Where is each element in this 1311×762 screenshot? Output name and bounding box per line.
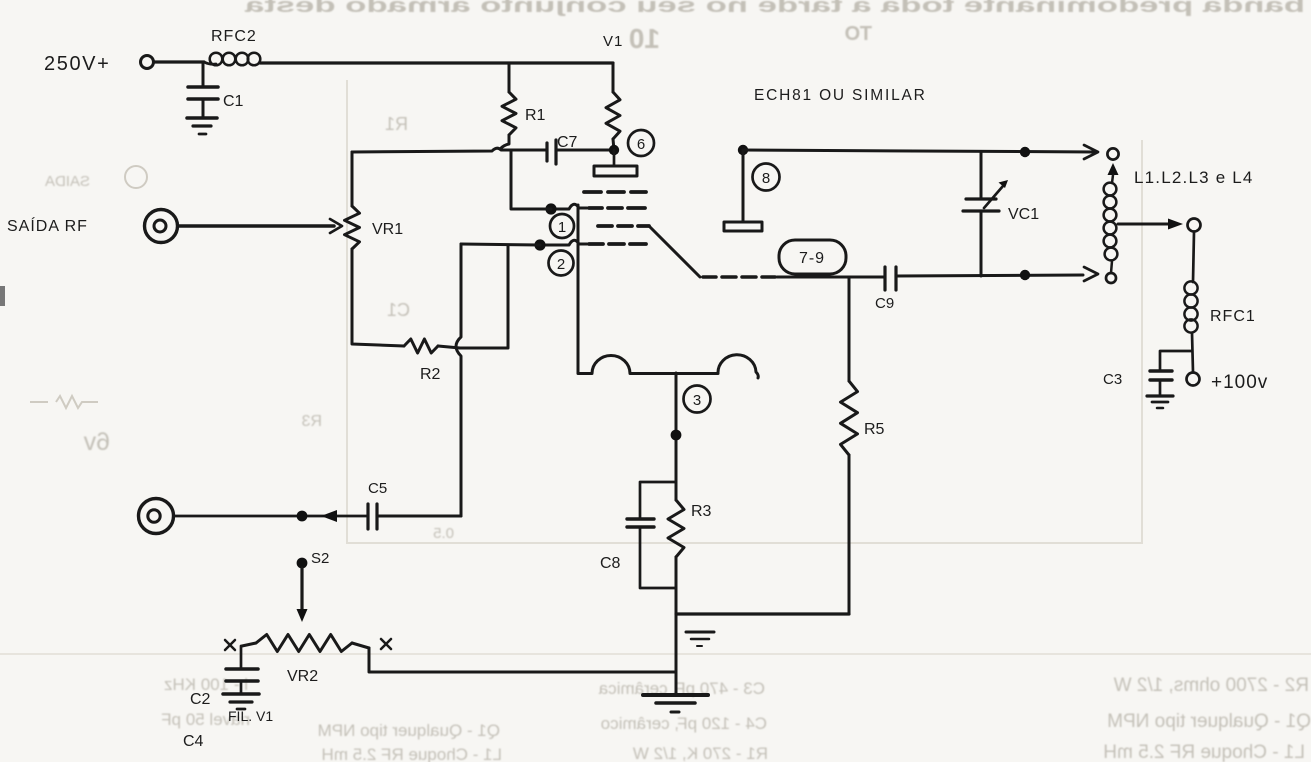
wire terminal to C5 xyxy=(174,515,368,518)
svg-text:R1: R1 xyxy=(525,107,546,124)
svg-text:S2: S2 xyxy=(311,550,329,567)
svg-text:C4: C4 xyxy=(183,733,204,750)
svg-text:R3: R3 xyxy=(691,503,712,520)
svg-text:R1: R1 xyxy=(385,114,408,134)
wire 250V+ to C1 node xyxy=(154,60,204,63)
ground C1 xyxy=(187,118,217,134)
svg-text:banda predominante toda a tard: banda predominante toda a tarde no seu c… xyxy=(243,0,1305,17)
svg-text:+100v: +100v xyxy=(1211,372,1268,393)
ground C2 (FIL. V1) xyxy=(223,694,259,709)
wire VR1 top xyxy=(351,152,354,206)
tube V1 grid g1 (dashed) xyxy=(589,242,646,246)
wire VR1 top bus to C7 xyxy=(352,148,546,152)
tube V1 triode anode node xyxy=(738,145,748,155)
svg-text:3: 3 xyxy=(693,392,701,409)
wire cathode down xyxy=(675,373,678,500)
svg-text:C7: C7 xyxy=(557,134,578,151)
svg-text:TO: TO xyxy=(845,23,872,45)
arrow into VR1 xyxy=(330,219,342,233)
pin label 6 xyxy=(628,130,654,156)
ground C3 xyxy=(1147,396,1173,408)
wire 7-9 line to C9 xyxy=(777,276,885,279)
tube V1 triode grid diagonal lead xyxy=(649,226,700,277)
capacitor C1 xyxy=(188,62,244,117)
x mark left xyxy=(225,640,235,650)
wire C9 to lower output arrow xyxy=(896,275,1083,276)
pin label 3 xyxy=(684,386,711,413)
wire VR1 bottom to R2 xyxy=(352,249,404,346)
svg-text:C8: C8 xyxy=(600,555,621,572)
svg-text:C9: C9 xyxy=(875,295,894,312)
resistor R3 xyxy=(668,500,712,557)
svg-text:R5: R5 xyxy=(864,421,885,438)
capacitor C2 xyxy=(190,646,258,708)
svg-text:R2: R2 xyxy=(420,366,441,383)
svg-text:ECH81 OU SIMILAR: ECH81 OU SIMILAR xyxy=(754,87,927,104)
svg-text:L1 - Choque RF 2.5 mH: L1 - Choque RF 2.5 mH xyxy=(322,745,502,762)
resistor R1 xyxy=(502,92,546,135)
svg-text:V1: V1 xyxy=(603,33,623,50)
wire R3 node to R5 bottom xyxy=(676,612,849,615)
svg-text:SAIDA: SAIDA xyxy=(45,173,90,190)
wire C7 to node 6 xyxy=(556,149,614,152)
svg-text:RFC1: RFC1 xyxy=(1210,308,1256,325)
svg-text:R1 - 270 K, 1/2 W: R1 - 270 K, 1/2 W xyxy=(633,744,768,762)
junction node 2 xyxy=(534,239,545,250)
junction node 1 xyxy=(545,203,556,214)
svg-text:7-9: 7-9 xyxy=(799,250,825,267)
svg-text:C1: C1 xyxy=(387,300,410,320)
svg-text:VC1: VC1 xyxy=(1008,206,1039,223)
inductor L1-L4 xyxy=(1104,175,1118,273)
wire anode resistor to node 6 xyxy=(613,139,614,150)
wire R3 bottom down to ground xyxy=(675,557,678,695)
pin label 2 xyxy=(549,251,574,276)
svg-text:0.5: 0.5 xyxy=(433,525,454,542)
potentiometer VR2 xyxy=(242,635,369,686)
svg-text:Q1 - Qualquer tipo NPM: Q1 - Qualquer tipo NPM xyxy=(318,721,500,740)
terminal SAIDA RF xyxy=(145,210,178,243)
capacitor C3 xyxy=(1103,351,1192,395)
terminal coil bottom xyxy=(1106,273,1116,283)
svg-text:2: 2 xyxy=(557,256,565,273)
tube V1 hexode anode plate xyxy=(594,150,637,176)
svg-text:VR2: VR2 xyxy=(287,668,318,685)
svg-text:R3: R3 xyxy=(301,413,322,430)
svg-text:L1 - Choque RF 2.5 mH: L1 - Choque RF 2.5 mH xyxy=(1103,742,1305,762)
potentiometer VR1 xyxy=(345,206,404,249)
wire node2 horizontal xyxy=(461,244,540,245)
wire coil tap xyxy=(1118,223,1170,226)
wire R1 top branch xyxy=(508,63,511,92)
wire triode anode to VC1/L xyxy=(743,150,1097,152)
arrow toward junction xyxy=(321,510,337,522)
wire node2 lead with hop xyxy=(540,240,587,245)
svg-text:FIL. V1: FIL. V1 xyxy=(228,708,273,724)
svg-text:1: 1 xyxy=(558,219,566,236)
svg-text:RFC2: RFC2 xyxy=(211,28,257,45)
wire SAIDA RF to VR1 xyxy=(178,224,334,228)
resistor (anode, unlabeled) xyxy=(606,92,620,139)
svg-text:C3: C3 xyxy=(1103,371,1122,388)
svg-text:250V+: 250V+ xyxy=(44,53,110,75)
svg-text:C2: C2 xyxy=(190,691,211,708)
tube V1 grid g4 (dashed) xyxy=(584,190,646,194)
terminal coil top xyxy=(1107,148,1118,159)
ground mid (small) xyxy=(686,632,714,646)
junction cathode xyxy=(671,430,682,441)
svg-text:Q1 - Qualquer tipo NPM: Q1 - Qualquer tipo NPM xyxy=(1107,711,1311,732)
terminal lower input xyxy=(139,499,174,534)
tube V1 cathode (wavy) xyxy=(578,355,758,378)
wire R2 to grid-2 riser xyxy=(438,245,508,348)
wire top bus RFC2 to V1 xyxy=(260,61,613,64)
pin label 8 xyxy=(753,164,780,191)
terminal +100v xyxy=(1187,372,1269,393)
arrow lower output xyxy=(1084,267,1098,281)
svg-text:C4 - 120 pF, cerâmico: C4 - 120 pF, cerâmico xyxy=(601,714,767,733)
inductor RFC2 xyxy=(204,28,260,65)
terminal tap xyxy=(1188,219,1201,232)
arrow upper output xyxy=(1084,145,1098,159)
junction node 6 xyxy=(609,145,619,155)
wire RFC1 to +100v xyxy=(1192,333,1193,372)
tube V1 grid g2 (dashed) xyxy=(598,224,649,228)
tube V1 triode anode plate xyxy=(724,150,762,231)
tube V1 grid g3 (dashed) xyxy=(589,206,645,210)
arrow coil top (up) xyxy=(1108,163,1119,175)
wire VR2 right to ground bus xyxy=(369,648,676,672)
capacitor C9 xyxy=(875,267,896,312)
wire tap to RFC1 xyxy=(1193,232,1194,282)
svg-text:8: 8 xyxy=(762,170,770,187)
wire V1 anode drop xyxy=(612,63,615,92)
capacitor C8 xyxy=(600,482,676,588)
arrow S2 down xyxy=(297,568,308,622)
resistor R5 xyxy=(841,277,885,614)
junction lower output xyxy=(1020,270,1030,280)
svg-text:10: 10 xyxy=(629,23,660,54)
svg-text:C5: C5 xyxy=(368,480,387,497)
wire R1 bottom to bus xyxy=(500,135,509,149)
inductor RFC1 xyxy=(1184,281,1255,332)
pin label 1 xyxy=(550,214,574,238)
svg-text:L1.L2.L3 e L4: L1.L2.L3 e L4 xyxy=(1134,168,1254,187)
wire node1 to R1 bottom xyxy=(511,150,551,209)
x mark right xyxy=(381,639,391,649)
svg-text:6: 6 xyxy=(637,136,645,153)
junction upper output xyxy=(1020,147,1030,157)
svg-text:R2 - 2700 ohms, 1/2 W: R2 - 2700 ohms, 1/2 W xyxy=(1114,675,1309,696)
wire dashed to 7-9 xyxy=(703,275,775,279)
ground main xyxy=(643,695,708,712)
svg-text:6v: 6v xyxy=(83,428,110,456)
svg-text:C1: C1 xyxy=(223,93,244,110)
resistor R2 xyxy=(404,339,441,383)
svg-text:VR1: VR1 xyxy=(372,221,403,238)
terminal 250V+ xyxy=(141,56,154,69)
tube V1 cathode lead vertical xyxy=(577,205,580,373)
switch S2 node xyxy=(297,558,308,569)
wire C5 to riser xyxy=(377,515,461,518)
svg-text:SAÍDA RF: SAÍDA RF xyxy=(7,216,88,235)
wire node1 lead with hop xyxy=(551,204,587,209)
capacitor C7 xyxy=(547,134,578,164)
wire C5 riser with hop xyxy=(456,244,461,516)
arrow coil tap xyxy=(1168,219,1183,230)
capacitor C5 xyxy=(368,480,387,529)
pin label 7-9 xyxy=(779,240,846,274)
variable capacitor VC1 xyxy=(963,152,1039,276)
junction S2 node xyxy=(297,511,308,522)
